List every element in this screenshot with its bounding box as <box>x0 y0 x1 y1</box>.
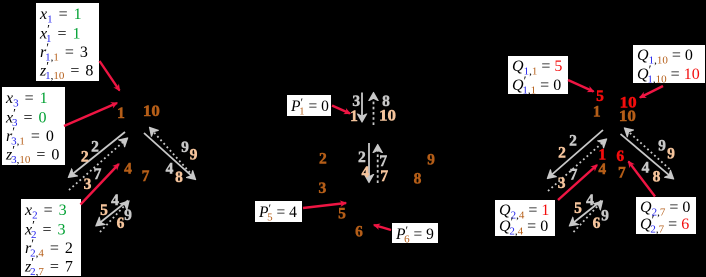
edge Bot-E solid <box>97 201 128 226</box>
svg-text:x′1 = 1: x′1 = 1 <box>39 22 80 46</box>
svg-text:2: 2 <box>91 139 99 156</box>
svg-text:5: 5 <box>574 200 582 217</box>
svg-text:6: 6 <box>616 148 624 165</box>
svg-text:9: 9 <box>601 208 609 225</box>
svg-text:2: 2 <box>558 145 566 162</box>
r edge R-C solid <box>621 134 673 178</box>
svg-text:z′1,10 = 8: z′1,10 = 8 <box>39 59 93 83</box>
svg-text:10: 10 <box>619 108 636 125</box>
svg-text:9: 9 <box>427 152 435 169</box>
svg-text:7: 7 <box>618 165 626 182</box>
svg-text:4: 4 <box>586 192 594 209</box>
svg-text:x1 = 1: x1 = 1 <box>39 6 82 26</box>
svg-text:1: 1 <box>350 108 358 125</box>
label box B1 (x1) <box>36 3 99 82</box>
svg-text:9: 9 <box>190 147 198 164</box>
svg-text:4: 4 <box>598 161 606 178</box>
svg-text:3: 3 <box>319 180 327 197</box>
svg-text:2: 2 <box>319 151 327 168</box>
r edge Bot-E solid <box>571 201 602 226</box>
svg-text:4: 4 <box>124 161 132 178</box>
label box Q110 <box>633 45 705 86</box>
r edge L-B dotted <box>548 140 606 191</box>
edge Bot-F dotted <box>100 202 128 232</box>
svg-text:1: 1 <box>117 105 125 122</box>
svg-text:10: 10 <box>379 108 396 125</box>
svg-text:3: 3 <box>84 176 92 193</box>
svg-text:7: 7 <box>380 168 388 185</box>
svg-text:8: 8 <box>414 171 422 188</box>
r edge L-A solid <box>549 130 604 178</box>
red arrow Q11 to red 5 <box>568 80 594 92</box>
edge L-A solid <box>70 132 126 177</box>
svg-text:x′2 = 3: x′2 = 3 <box>24 218 65 242</box>
label box B2 (x3) <box>2 87 65 166</box>
svg-text:4: 4 <box>362 164 370 181</box>
svg-text:7: 7 <box>94 166 102 183</box>
red arrow P1 to node 1m <box>332 106 350 114</box>
edge R-C solid <box>144 133 195 179</box>
svg-text:7: 7 <box>570 167 578 184</box>
m-top solid down arrow <box>361 93 363 121</box>
label box Q27 <box>636 197 696 236</box>
svg-text:x′3 = 0: x′3 = 0 <box>5 106 46 130</box>
svg-text:9: 9 <box>658 138 666 155</box>
red arrow B2 to node 1 <box>64 103 117 126</box>
svg-text:7: 7 <box>142 168 150 185</box>
red arrow P5 to node 5 <box>303 203 346 208</box>
svg-text:8: 8 <box>653 169 661 186</box>
label box P1 <box>287 95 331 118</box>
m-mid dashed up arrow <box>377 146 379 183</box>
svg-text:3: 3 <box>558 175 566 192</box>
svg-text:1: 1 <box>593 104 601 121</box>
svg-text:Q′2,7 = 6: Q′2,7 = 6 <box>640 212 689 236</box>
svg-text:6: 6 <box>355 224 363 241</box>
svg-text:9: 9 <box>124 207 132 224</box>
svg-text:5: 5 <box>338 206 346 223</box>
svg-text:2: 2 <box>569 133 577 150</box>
svg-text:z′3,10 = 0: z′3,10 = 0 <box>5 143 59 167</box>
svg-text:9: 9 <box>667 146 675 163</box>
label box Q24 <box>495 200 555 238</box>
m-mid solid down arrow <box>368 143 370 181</box>
red arrow B3 to node 4 <box>81 164 119 205</box>
svg-text:Q′2,4 = 0: Q′2,4 = 0 <box>499 214 548 238</box>
svg-text:5: 5 <box>596 88 604 105</box>
svg-text:4: 4 <box>166 161 174 178</box>
label box P5 <box>255 201 302 224</box>
red arrow P6 to node 6 <box>374 225 391 230</box>
edge R-D dotted <box>151 129 194 177</box>
red arrow Q110 to red 10 <box>640 86 663 98</box>
red arrow B1 to node 1 <box>100 61 120 91</box>
svg-text:Q′1,1 = 0: Q′1,1 = 0 <box>512 73 561 97</box>
label box B3 (x2) <box>21 199 81 277</box>
svg-text:P′6 = 9: P′6 = 9 <box>395 223 434 246</box>
red arrow Q24 to red 1 <box>558 165 597 200</box>
svg-text:9: 9 <box>181 139 189 156</box>
svg-text:6: 6 <box>117 215 125 232</box>
svg-text:P′1 = 0: P′1 = 0 <box>290 95 329 118</box>
edge L-B dotted <box>69 139 127 190</box>
red arrow Q27 to red 6 <box>629 162 656 197</box>
svg-text:4: 4 <box>111 192 119 209</box>
svg-text:Q1,1 = 5: Q1,1 = 5 <box>512 58 562 78</box>
svg-text:2: 2 <box>81 149 89 166</box>
svg-text:x3 = 1: x3 = 1 <box>5 90 48 110</box>
svg-text:Q′1,10 = 10: Q′1,10 = 10 <box>637 62 700 86</box>
svg-text:6: 6 <box>593 215 601 232</box>
r edge R-D dotted <box>626 129 670 169</box>
r edge Bot-F dotted <box>574 202 602 232</box>
svg-text:z′2,7 = 7: z′2,7 = 7 <box>24 255 73 277</box>
svg-text:8: 8 <box>175 169 183 186</box>
label box Q11 <box>508 56 568 97</box>
m-top dashed up arrow <box>373 94 375 125</box>
svg-text:4: 4 <box>642 160 650 177</box>
svg-text:x2 = 3: x2 = 3 <box>24 202 67 222</box>
svg-text:5: 5 <box>100 202 108 219</box>
label box P6 <box>392 223 438 246</box>
svg-text:10: 10 <box>143 103 160 120</box>
svg-text:P′5 = 4: P′5 = 4 <box>258 201 297 224</box>
